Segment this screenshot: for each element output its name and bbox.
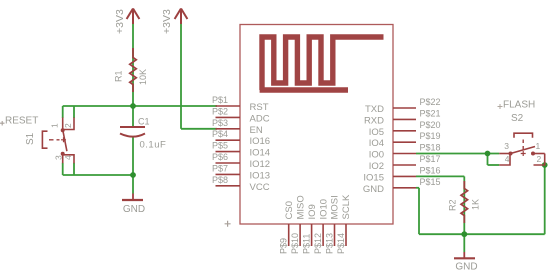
svg-text:C1: C1 <box>138 116 150 126</box>
svg-text:P$1: P$1 <box>212 95 228 105</box>
svg-text:RESET: RESET <box>5 116 38 127</box>
wire IO0 branch down <box>487 154 489 166</box>
S2 lever <box>511 147 536 154</box>
svg-text:P$2: P$2 <box>212 106 228 116</box>
svg-text:P$22: P$22 <box>420 97 441 107</box>
S2 pin 4 <box>499 154 510 166</box>
svg-text:S2: S2 <box>511 113 524 124</box>
ground GND right <box>454 252 478 273</box>
svg-text:10K: 10K <box>138 69 148 85</box>
svg-text:EN: EN <box>250 125 263 136</box>
svg-text:TXD: TXD <box>365 104 384 115</box>
S2 pin 2 <box>534 154 545 166</box>
resistor R2 <box>461 181 467 223</box>
S1 contact bottom <box>61 152 65 156</box>
pin P$19 (IO4) <box>369 131 441 149</box>
module box ESP8266 <box>240 25 393 225</box>
wire bottom S1 to C1 <box>63 174 133 176</box>
wire EN horizontal to P$3 <box>181 128 217 130</box>
svg-text:P$4: P$4 <box>212 129 228 139</box>
wire IO0 net to S2 pin3 <box>416 153 499 155</box>
S1 pin 2 <box>63 118 74 130</box>
svg-text:2: 2 <box>63 123 73 128</box>
svg-text:1K: 1K <box>471 199 481 210</box>
module origin cross <box>225 221 231 227</box>
svg-text:3: 3 <box>504 141 509 151</box>
switch S1 (RESET) <box>42 118 74 164</box>
S1 lever <box>63 131 67 152</box>
wire +3V3 EN vertical <box>180 24 182 129</box>
svg-text:P$18: P$18 <box>420 143 441 153</box>
svg-text:P$7: P$7 <box>212 163 228 173</box>
svg-text:+3V3: +3V3 <box>114 9 126 34</box>
junction node C1 bottom <box>130 172 136 178</box>
S2 origin cross <box>498 104 503 109</box>
svg-text:P$10: P$10 <box>290 233 300 254</box>
pin P$5 (IO14) <box>212 141 270 159</box>
pin P$14 (SCLK) <box>336 194 352 254</box>
svg-text:P$19: P$19 <box>420 131 441 141</box>
junction node S2 pin2 <box>542 162 548 168</box>
svg-text:RST: RST <box>250 102 269 113</box>
svg-text:SCLK: SCLK <box>341 194 352 219</box>
pin P$3 (EN) <box>212 118 263 136</box>
svg-text:MISO: MISO <box>295 195 306 219</box>
resistor R1 <box>130 48 136 92</box>
wire R2 column vertical <box>463 176 465 234</box>
svg-text:P$16: P$16 <box>420 165 441 175</box>
svg-text:IO15: IO15 <box>363 172 384 183</box>
svg-text:P$15: P$15 <box>420 177 441 187</box>
S1 pin 1 <box>62 118 64 130</box>
pin P$11 (IO9) <box>301 204 317 254</box>
svg-text:P$8: P$8 <box>212 175 228 185</box>
svg-text:IO16: IO16 <box>250 136 271 147</box>
wire IO0 branch to S2 pin4 <box>488 164 500 166</box>
svg-text:GND: GND <box>363 184 384 195</box>
svg-text:P$13: P$13 <box>324 233 334 254</box>
wire C1 column vertical <box>132 106 134 127</box>
svg-text:+3V3: +3V3 <box>161 9 173 34</box>
svg-text:FLASH: FLASH <box>503 100 535 111</box>
svg-text:S1: S1 <box>25 132 36 145</box>
pin P$13 (MOSI) <box>324 195 340 254</box>
pin P$22 (TXD) <box>365 97 441 115</box>
pin P$16 (IO15) <box>363 165 440 183</box>
svg-text:IO9: IO9 <box>307 204 318 219</box>
svg-text:IO4: IO4 <box>369 138 384 149</box>
S2 actuator <box>514 133 533 138</box>
svg-text:IO13: IO13 <box>250 170 271 181</box>
pin P$18 (IO0) <box>369 143 441 161</box>
wire S2 right vertical down <box>544 165 546 234</box>
svg-text:VCC: VCC <box>250 182 270 193</box>
wire S1 pin4 stub <box>73 163 75 175</box>
svg-text:R1: R1 <box>113 70 123 82</box>
svg-text:1: 1 <box>50 123 60 128</box>
svg-text:2: 2 <box>537 154 542 164</box>
power +3V3 arrow 2 <box>175 9 188 25</box>
pin P$8 (VCC) <box>212 175 270 193</box>
S1 pin 4 <box>63 155 74 163</box>
svg-text:1: 1 <box>536 141 541 151</box>
pin P$1 (RST) <box>212 95 269 113</box>
svg-text:MOSI: MOSI <box>330 195 341 219</box>
junction node IO0/S2 <box>485 151 491 157</box>
wire RST net horizontal to P$1 <box>63 105 217 107</box>
svg-text:0.1uF: 0.1uF <box>140 139 167 150</box>
pin P$20 (IO5) <box>369 120 441 138</box>
svg-text:4: 4 <box>63 155 73 160</box>
ground GND left <box>122 194 145 215</box>
svg-text:P$17: P$17 <box>420 154 441 164</box>
wire S1 pin2 stub <box>73 106 75 118</box>
PCB antenna meander <box>260 37 384 90</box>
svg-text:GND: GND <box>455 262 477 273</box>
svg-text:IO0: IO0 <box>369 150 384 161</box>
S1 pin 3 <box>62 155 64 163</box>
S2 pin 1 <box>533 153 545 155</box>
wire S1 pin3 stub <box>62 163 64 175</box>
svg-text:P$11: P$11 <box>301 234 311 254</box>
svg-text:P$3: P$3 <box>212 118 228 128</box>
svg-text:P$20: P$20 <box>420 120 441 130</box>
junction node R2/GND <box>461 231 467 237</box>
pin P$10 (MISO) <box>290 195 306 254</box>
svg-text:P$12: P$12 <box>313 233 323 254</box>
switch S2 (FLASH) <box>499 133 544 165</box>
wire P$15 GND vertical <box>418 188 420 234</box>
pin P$9 (CS0) <box>279 201 295 254</box>
power +3V3 arrow 1 <box>127 9 140 25</box>
wire left GND stub <box>132 175 134 194</box>
pin P$2 (ADC) <box>212 106 270 124</box>
svg-text:P$5: P$5 <box>212 141 228 151</box>
S2 contact left <box>509 152 513 156</box>
svg-text:IO10: IO10 <box>318 199 329 220</box>
wire P$15 GND horizontal <box>416 187 419 189</box>
pin P$4 (IO16) <box>212 129 270 147</box>
wire C1 bottom to junction <box>132 136 134 175</box>
pin P$15 (GND) <box>363 177 441 195</box>
pin P$17 (IO2) <box>369 154 441 172</box>
S1 actuator <box>42 131 47 148</box>
svg-text:P$9: P$9 <box>279 238 289 254</box>
wire S1 pin1 stub <box>62 106 64 118</box>
svg-text:IO12: IO12 <box>250 159 271 170</box>
svg-text:3: 3 <box>54 155 64 160</box>
pin P$12 (IO10) <box>313 199 329 254</box>
S2 pin 3 <box>499 153 510 155</box>
svg-text:IO5: IO5 <box>369 127 384 138</box>
S2 contact right <box>531 152 535 156</box>
pin P$21 (RXD) <box>364 108 441 126</box>
svg-text:IO14: IO14 <box>250 148 271 159</box>
svg-text:CS0: CS0 <box>284 201 295 219</box>
wire bottom right horizontal <box>419 233 545 235</box>
svg-text:R2: R2 <box>448 199 458 211</box>
svg-text:ADC: ADC <box>250 113 270 124</box>
junction node R1/RST <box>130 103 136 109</box>
S1 origin cross <box>0 121 5 126</box>
svg-text:GND: GND <box>123 204 145 215</box>
svg-text:P$14: P$14 <box>336 233 346 254</box>
pin P$6 (IO12) <box>212 152 270 170</box>
svg-text:IO2: IO2 <box>369 161 384 172</box>
wire R1 column vertical <box>132 24 134 106</box>
capacitor C1 <box>120 127 145 137</box>
pin P$7 (IO13) <box>212 163 270 181</box>
wire right GND stub <box>463 234 465 252</box>
S1 contact top <box>61 128 65 132</box>
wire IO15 to R2 <box>416 175 464 177</box>
svg-text:P$21: P$21 <box>420 108 441 118</box>
svg-text:P$6: P$6 <box>212 152 228 162</box>
svg-text:RXD: RXD <box>364 115 384 126</box>
svg-text:4: 4 <box>505 154 510 164</box>
